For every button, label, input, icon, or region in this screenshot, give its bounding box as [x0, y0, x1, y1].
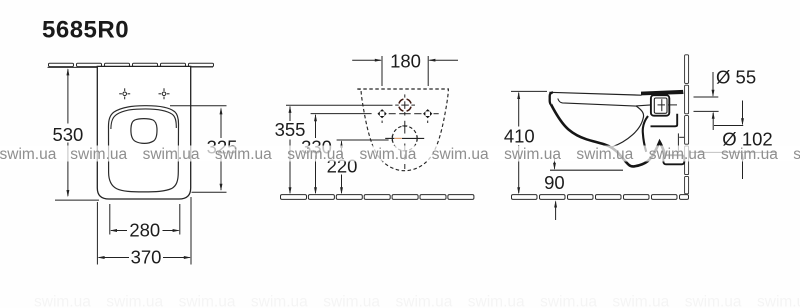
outlet stub	[663, 155, 684, 164]
svg-text:swim.ua: swim.ua	[612, 294, 669, 308]
ext line 355	[286, 104, 393, 106]
water inlet circle D55	[399, 99, 411, 111]
mounting hole crosshair right	[159, 88, 170, 99]
svg-text:Ø 55: Ø 55	[716, 67, 756, 88]
svg-text:90: 90	[544, 172, 565, 193]
inner rim outer edge	[108, 106, 178, 192]
dimension 530	[55, 68, 99, 200]
thin line to wall	[679, 136, 684, 138]
mounting hole crosshair left	[119, 88, 130, 99]
svg-text:swim.ua: swim.ua	[0, 146, 57, 163]
svg-text:swim.ua: swim.ua	[468, 294, 525, 308]
dimension 220	[340, 140, 343, 194]
svg-text:swim.ua: swim.ua	[396, 294, 453, 308]
svg-text:530: 530	[52, 124, 83, 145]
dimension 370	[97, 197, 191, 265]
fixing hole left symbol	[378, 109, 387, 118]
drain circle D102 dashed	[392, 126, 417, 151]
ext line 330	[311, 113, 372, 115]
svg-text:370: 370	[131, 247, 162, 268]
toilet top edge	[549, 92, 641, 95]
svg-text:swim.ua: swim.ua	[432, 146, 489, 163]
svg-text:swim.ua: swim.ua	[757, 294, 800, 308]
watermarks	[0, 146, 800, 163]
dimension 90	[553, 157, 557, 221]
orange segment on drain line	[395, 137, 402, 139]
spud housing inner	[654, 98, 667, 113]
svg-text:swim.ua: swim.ua	[179, 294, 236, 308]
svg-text:swim.ua: swim.ua	[70, 146, 127, 163]
flush channel L	[651, 114, 678, 127]
svg-text:swim.ua: swim.ua	[251, 294, 308, 308]
ext line 220	[337, 139, 389, 141]
bottom line / 90 ext	[550, 169, 623, 171]
drain crosshair	[385, 136, 424, 142]
svg-text:swim.ua: swim.ua	[215, 146, 272, 163]
floor hatch planks	[512, 195, 689, 200]
dashes through fixing holes	[382, 114, 439, 123]
wall planks vertical	[685, 55, 689, 194]
dimension 330	[314, 114, 317, 194]
svg-text:swim.ua: swim.ua	[143, 146, 200, 163]
dimension 180	[352, 56, 458, 86]
watermark band	[0, 146, 800, 162]
seat line	[558, 99, 637, 107]
wall face line right	[191, 66, 213, 68]
floor hatch planks	[281, 195, 474, 200]
dashed bowl outline front	[357, 89, 448, 171]
fixing hole right symbol	[423, 109, 432, 118]
bowl opening	[131, 119, 157, 144]
front face thick	[550, 92, 553, 104]
svg-text:swim.ua: swim.ua	[649, 146, 706, 163]
dimension 280	[110, 204, 180, 235]
svg-text:410: 410	[504, 125, 535, 146]
wall face line left	[48, 66, 98, 68]
svg-text:swim.ua: swim.ua	[360, 146, 417, 163]
svg-text:swim.ua: swim.ua	[685, 294, 742, 308]
svg-text:5685R0: 5685R0	[42, 17, 129, 44]
dimension 325	[170, 106, 227, 193]
svg-text:280: 280	[129, 219, 160, 240]
svg-text:swim.ua: swim.ua	[106, 294, 163, 308]
svg-text:swim.ua: swim.ua	[793, 146, 800, 163]
inner bowl line	[612, 106, 644, 147]
center line vertical	[402, 94, 407, 169]
svg-text:swim.ua: swim.ua	[576, 146, 633, 163]
spud housing outer	[651, 95, 669, 116]
dimension 410	[511, 91, 547, 194]
seat to housing line	[636, 105, 651, 106]
black top bar	[641, 90, 684, 96]
faint cropped watermark rows	[34, 294, 800, 308]
svg-text:swim.ua: swim.ua	[721, 146, 778, 163]
svg-text:swim.ua: swim.ua	[34, 294, 91, 308]
dimension D55	[694, 72, 719, 130]
thin vertical near wall	[677, 133, 679, 151]
svg-text:swim.ua: swim.ua	[540, 294, 597, 308]
svg-text:swim.ua: swim.ua	[323, 294, 380, 308]
svg-text:swim.ua: swim.ua	[287, 146, 344, 163]
svg-text:swim.ua: swim.ua	[504, 146, 561, 163]
dimension 355	[289, 106, 292, 195]
back wall thick	[643, 116, 648, 152]
underside thick curve	[551, 104, 683, 166]
inner rim second arc	[111, 109, 176, 129]
dimension D102	[690, 101, 777, 180]
svg-text:180: 180	[390, 50, 421, 71]
wall hatch planks top	[49, 63, 214, 66]
toilet outer outline plan	[97, 66, 190, 199]
spud crosshair dashes	[658, 99, 678, 111]
